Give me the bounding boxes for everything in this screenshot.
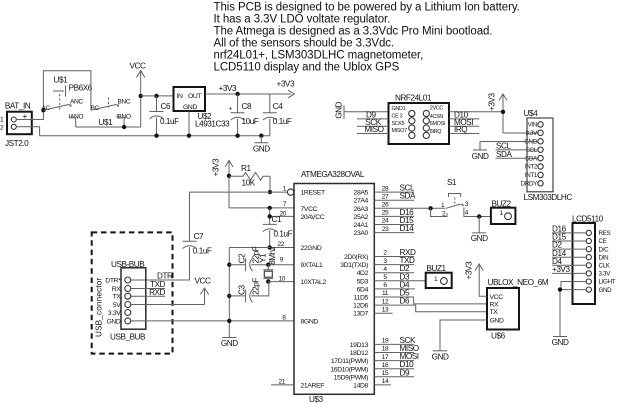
svg-text:L4931C33: L4931C33 [195,120,230,129]
svg-text:10uF: 10uF [242,117,259,126]
ground symbol LCD [553,336,567,338]
wire pin 18 stub [374,352,414,354]
svg-text:RXD: RXD [149,288,165,297]
svg-text:17D11(PWM): 17D11(PWM) [331,358,368,365]
svg-text:+3V3: +3V3 [465,261,474,279]
svg-text:0.1uF: 0.1uF [160,117,179,126]
svg-text:D14: D14 [400,224,415,233]
wire regulator OUT 3V3 rail [205,93,291,95]
pin circle 3.3V [125,310,131,316]
svg-text:+3V3: +3V3 [219,84,237,93]
pin circle NRF 8 [423,132,429,138]
svg-text:GND: GND [106,318,120,325]
svg-text:23A0: 23A0 [354,230,369,237]
svg-text:0.1uF: 0.1uF [274,229,293,238]
wire pin 15 stub [374,376,414,378]
svg-text:4CSN: 4CSN [430,114,444,120]
svg-text:GND: GND [599,287,613,294]
node NRF VCC junction [501,110,505,114]
svg-text:+3V3: +3V3 [488,93,497,111]
wire pin 9 stub [268,264,294,266]
switch blade pole A [43,104,69,110]
pin circle NRF 2 [423,110,429,116]
svg-text:+3V3: +3V3 [277,80,295,89]
switch S1 dashed link [454,198,456,205]
wire R1 to reset node [269,176,271,192]
svg-text:IN: IN [177,93,184,100]
pin circle GND LSM [538,139,543,144]
pin circle INT1 [538,172,543,177]
pin circle NRF 5 [409,125,415,131]
svg-text:1RESET: 1RESET [301,190,326,197]
svg-text:0.1uF: 0.1uF [193,247,212,256]
pin circle GND [125,318,131,324]
node AC junction [41,108,45,112]
wire ANO BNO to VCC node [76,96,141,127]
svg-text:U$6: U$6 [491,332,506,341]
pin circle 3.3V LCD [586,271,591,276]
svg-text:CE: CE [599,238,607,245]
node pin22 junction [268,245,272,249]
svg-text:DTR*: DTR* [105,278,121,285]
wire D14 stub LCD [552,256,586,258]
node LCD GND junction [558,287,562,291]
svg-text:13: 13 [382,306,389,313]
wire pin 25 stub [374,215,414,217]
svg-text:U$4: U$4 [524,109,539,118]
svg-text:VCC: VCC [490,294,504,301]
pin circle NRF 4 [423,118,429,124]
wire pin 2 stub [374,256,414,258]
svg-text:MISO7: MISO7 [392,128,408,134]
svg-text:6D4: 6D4 [357,286,369,293]
svg-text:C2: C2 [238,253,247,263]
capacitor C2 [229,258,268,271]
svg-text:All of the sensors should be 3: All of the sensors should be 3.3Vdc. [214,38,395,50]
svg-text:nrf24L01+, LSM303DLHC magnetom: nrf24L01+, LSM303DLHC magnetometer, [214,50,424,62]
svg-text:GND: GND [552,338,569,347]
svg-text:12D6: 12D6 [353,303,368,310]
svg-text:C3: C3 [238,285,247,295]
crystal Y1 body [264,271,272,277]
pin circle GND LCD [586,287,591,292]
svg-text:USB_connector: USB_connector [95,278,104,337]
power VCC arrow [137,71,145,96]
capacitor C8 [231,94,245,136]
svg-text:BUZ1: BUZ1 [427,264,447,273]
pin circle NRF 1 [409,110,415,116]
wire pin 6 stub [374,288,415,290]
wire MOSI stub NRF [449,125,479,127]
svg-text:3.3V: 3.3V [599,271,612,278]
svg-text:17: 17 [382,354,389,361]
node pin20 junction [268,214,272,218]
svg-text:C8: C8 [242,102,252,111]
node VCC junction [139,94,143,98]
wire TXD stub [131,288,165,290]
wire regulator GND to bus [188,111,190,136]
gps U$6 body [487,288,519,330]
svg-text:VCC: VCC [195,277,211,286]
power +3V3 arrow NRF [499,94,507,133]
svg-text:SDA: SDA [496,150,512,159]
svg-text:R1: R1 [241,164,251,173]
svg-text:D6: D6 [400,297,410,306]
pin circle CE [586,238,591,243]
capacitor C7 [131,241,197,280]
wire D16 stub LCD [552,232,586,234]
svg-text:DIN: DIN [599,254,609,261]
svg-text:NRF24L01: NRF24L01 [395,94,432,103]
pin circle NRF 6 [423,125,429,131]
svg-text:INT2: INT2 [525,164,538,171]
svg-text:OUT: OUT [188,93,201,100]
node GND stub junction [259,134,263,138]
buzzer BUZ2 body [491,208,516,224]
wire pin 19 stub [374,343,414,345]
svg-text:8IRQ: 8IRQ [430,129,441,135]
svg-text:3D1(TXD): 3D1(TXD) [340,262,368,269]
svg-text:LSM303DLHC: LSM303DLHC [524,193,573,202]
node S1 input junction [428,206,432,210]
wire pin 17 stub [374,360,414,362]
wire reset net to C7 [190,192,271,241]
svg-text:2VCC: 2VCC [430,105,444,111]
svg-text:+3V3: +3V3 [212,158,221,176]
wire ground bus vertical [228,248,230,338]
buzzer BUZ1 body [426,273,452,288]
svg-text:6MOSI: 6MOSI [430,121,445,127]
wire pin 14 stub [374,384,391,386]
svg-text:27: 27 [382,193,389,200]
node R1 left junction [227,174,231,178]
capacitor C1 [263,224,277,247]
wire pin 22 ground row [229,247,294,249]
node BNO junction [122,125,126,129]
svg-text:C7: C7 [194,232,204,241]
svg-text:10XTAL2: 10XTAL2 [301,279,327,286]
pin circle LIGHT [586,279,591,284]
module USB-BUB body [121,268,146,329]
svg-text:15: 15 [382,370,389,377]
wire pin 21 stub [271,384,294,386]
pin circle DIN [586,255,591,260]
power +3V3 arrow UBLOX [475,264,487,296]
power +3V3 arrow above R1 [225,161,233,208]
svg-text:28: 28 [382,185,389,192]
svg-text:26A3: 26A3 [354,206,369,213]
ground symbol LSM [473,149,487,151]
node C8 top junction [235,92,239,96]
wire D9 stub NRF [357,118,389,120]
svg-text:18D12: 18D12 [350,350,369,357]
svg-text:3.3V: 3.3V [525,130,538,137]
wire S1 pins 3-4 to output [464,208,491,217]
svg-text:VIN: VIN [528,122,537,129]
wire pin 27 stub [374,199,414,201]
svg-text:The Atmega is designed as a 3.: The Atmega is designed as a 3.3Vdc Pro M… [214,26,493,38]
module USB-BUB dashed enclosure [92,232,173,353]
wire reset net to pin 1 [270,191,287,193]
pin circle NRF 7 [409,132,415,138]
svg-text:27A4: 27A4 [354,198,369,205]
node C6 top junction [154,94,158,98]
wire AC to BC common link [43,71,91,111]
svg-text:TX: TX [490,309,499,316]
wire pin 7 VCC feed [229,207,294,209]
node C3 bus junction [227,294,231,298]
wire battery minus to ground bus [16,127,269,136]
wire D2 stub LCD [552,248,586,250]
wire pin 26 to S1 [374,207,445,209]
power VCC arrow at USB [200,288,208,305]
pin circle VIN [538,122,543,127]
pin circle RX [125,286,131,292]
node regulator GND junction [187,134,191,138]
svg-text:4D2: 4D2 [357,270,369,277]
node C8 bottom junction [235,134,239,138]
svg-text:5V: 5V [113,302,121,309]
svg-text:ANO: ANO [70,114,83,121]
svg-text:22GND: 22GND [301,245,322,252]
dashed actuator link pole A [59,94,61,111]
svg-text:GND: GND [335,101,344,118]
wire RXD stub [131,295,165,297]
svg-text:25A2: 25A2 [354,214,369,221]
IC U$3 body [294,184,374,395]
svg-text:UBLOX_NEO_6M: UBLOX_NEO_6M [488,278,549,287]
wire pin 10 stub [268,281,294,283]
svg-text:12: 12 [382,298,389,305]
svg-text:5D3: 5D3 [357,278,369,285]
resistor R1 [229,172,270,180]
svg-text:GND: GND [253,145,270,154]
svg-text:GND: GND [471,234,488,243]
pin circle CLK [586,263,591,268]
regulator U$2 body [174,87,206,111]
contact pin ANO [70,114,76,127]
wire pin 13 stub [374,312,392,314]
svg-text:GND: GND [432,352,449,361]
svg-text:RX: RX [112,286,122,293]
pin circle NRF 3 [409,118,415,124]
svg-text:LIGHT: LIGHT [599,279,616,286]
ground symbol below S1 [472,217,486,233]
svg-text:BAT_IN: BAT_IN [5,102,31,111]
wire USB GND to ATmega pin 8 [131,320,294,322]
svg-text:VCC: VCC [130,62,146,71]
svg-text:7VCC: 7VCC [301,206,318,213]
display LCD5110 body [573,223,596,304]
svg-text:SCK5: SCK5 [392,121,405,127]
pin circle D/C [586,247,591,252]
pin circle DTR* [125,277,131,283]
svg-text:14D8: 14D8 [353,382,368,389]
switch blade pole B [91,104,117,110]
wire 5V to VCC arrow [131,304,205,306]
svg-text:19D13: 19D13 [350,342,369,349]
wire pin 4 stub [374,272,414,274]
svg-text:U$3: U$3 [309,395,324,404]
svg-text:GND: GND [490,318,504,325]
svg-text:23: 23 [382,226,389,233]
wire pin 28 stub [374,191,414,193]
wire IRQ stub NRF [449,133,479,135]
switch S1 blade [446,204,461,208]
node S1 output junction [477,214,481,218]
svg-text:D/C: D/C [599,246,610,253]
svg-text:S1: S1 [447,178,457,187]
pin circle TX [125,293,131,299]
svg-text:2D0(RX): 2D0(RX) [344,254,368,261]
wire NRF VCC to 3V3 [449,111,503,113]
pin 2 circle BAT_IN [11,124,16,129]
svg-text:C6: C6 [161,102,171,111]
svg-text:8Mhz: 8Mhz [268,246,277,265]
node C6 bottom junction [154,134,158,138]
svg-text:18: 18 [382,346,389,353]
node XTAL2 junction [266,279,270,283]
svg-text:16: 16 [382,362,389,369]
node pin7 junction [268,206,272,210]
contact tick BNC [117,105,119,107]
svg-text:11D5: 11D5 [354,295,369,302]
svg-text:D9: D9 [400,368,410,377]
wire D15 stub LCD [552,240,586,242]
svg-text:RES: RES [599,230,611,237]
ground symbol NRF left rotated [344,105,389,119]
svg-text:16D10(PWM): 16D10(PWM) [330,366,368,373]
contact tick ANC [69,105,71,107]
wire UBLOX GND to ground [440,320,487,351]
wire +3V3 stub LCD [552,272,586,274]
capacitor C3 [229,282,268,303]
svg-text:CE 3: CE 3 [392,114,403,120]
wire D10 stub NRF [449,118,479,120]
capacitor C6 [150,96,164,136]
svg-text:20AVCC: 20AVCC [301,214,325,221]
svg-text:ATMEGA328OVAL: ATMEGA328OVAL [301,170,365,179]
sensor U$4 body [527,118,553,192]
node pin8 bus junction [227,319,231,323]
wire LIGHT to GND net [561,282,586,290]
pin circle 3.3V LSM [538,130,543,135]
svg-text:DRDY: DRDY [521,181,538,188]
wire pin 23 stub [374,232,414,234]
wire GND row LCD [560,290,586,337]
pin circle RES [586,230,591,235]
svg-text:22pF: 22pF [252,278,261,295]
svg-text:26: 26 [382,202,389,209]
connector BAT_IN body [7,112,32,135]
pushbutton plunger symbol [53,86,66,97]
wire pin 11 D5 to UBLOX RX [374,297,487,304]
svg-text:9XTAL1: 9XTAL1 [301,262,324,269]
svg-text:GND: GND [221,339,238,348]
pin 1 inverted reset circle [287,189,293,195]
svg-text:25: 25 [382,210,389,217]
svg-text:U$1: U$1 [99,118,114,127]
svg-text:24A1: 24A1 [354,222,369,229]
wire pin 12 D6 to UBLOX TX [374,305,487,312]
svg-text:14: 14 [382,378,389,385]
svg-text:MISO: MISO [364,125,383,134]
wire 3V3 to LSM 3.3V pin [503,132,538,134]
svg-text:0.1uF: 0.1uF [273,117,292,126]
node XTAL1 junction [266,263,270,267]
pin circle 5V [125,302,131,308]
svg-text:22: 22 [277,241,284,248]
ground symbol UBLOX [433,350,447,352]
wire pin 5 stub [374,280,425,282]
switch S1 actuator bracket [449,194,461,198]
svg-text:GND: GND [183,104,197,111]
svg-text:3.3V: 3.3V [108,310,121,317]
module NRF24L01 body [389,103,450,144]
svg-text:10K: 10K [242,179,256,188]
wire D4 stub LCD [552,264,586,266]
wire pin 3 stub [374,264,414,266]
svg-text:It has a 3.3V LDO voltate regu: It has a 3.3V LDO voltate regulator. [214,13,391,25]
pin circle BUZ2 [505,213,512,220]
ground symbol crystal bus [222,337,236,339]
wire VCC rail to regulator IN [141,95,174,97]
svg-text:21: 21 [278,378,285,385]
svg-text:BNC: BNC [118,98,131,105]
svg-text:11: 11 [382,290,389,297]
ground symbol below bus [254,136,268,143]
wire pin 24 stub [374,224,414,226]
svg-text:10: 10 [278,275,285,282]
pin circle SCL LSM [538,147,543,152]
pin circle SDA LSM [538,155,543,160]
svg-text:+3V3: +3V3 [552,265,570,274]
svg-text:19: 19 [382,338,389,345]
dashed actuator link pole B [108,98,110,108]
svg-text:IRQ: IRQ [454,125,467,134]
svg-text:C4: C4 [273,102,283,111]
svg-text:+: + [229,106,233,113]
crystal Y1 [263,265,273,282]
svg-text:SDA: SDA [400,192,416,201]
svg-text:INT1: INT1 [525,172,538,179]
wire battery plus to switch AC [16,110,43,119]
svg-text:GND1: GND1 [392,106,406,112]
svg-text:20: 20 [279,210,286,217]
svg-text:JST2.0: JST2.0 [5,139,29,148]
svg-text:PB6X6: PB6X6 [69,84,93,93]
contact tick S1 pin3 [461,204,463,206]
svg-text:28A5: 28A5 [354,190,369,197]
svg-text:USB_BUB: USB_BUB [110,333,146,342]
wire MISO stub NRF [357,133,389,135]
wire pin 20 stub [270,215,294,217]
wire SCK stub NRF [357,125,389,127]
svg-text:21AREF: 21AREF [301,382,325,389]
wire AVCC vertical [269,208,271,225]
svg-text:ANC: ANC [70,99,83,106]
node RESET junction [268,190,272,194]
contact pin BNO [117,114,124,127]
svg-text:RX: RX [490,301,500,308]
svg-text:Y1: Y1 [259,253,268,263]
node C2 bus junction [227,263,231,267]
pin circle INT2 [538,164,543,169]
capacitor C4 [263,94,277,136]
svg-text:GND: GND [472,152,489,161]
wire LSM GND to ground [480,142,538,151]
pin circle BUZ1 [441,278,448,285]
